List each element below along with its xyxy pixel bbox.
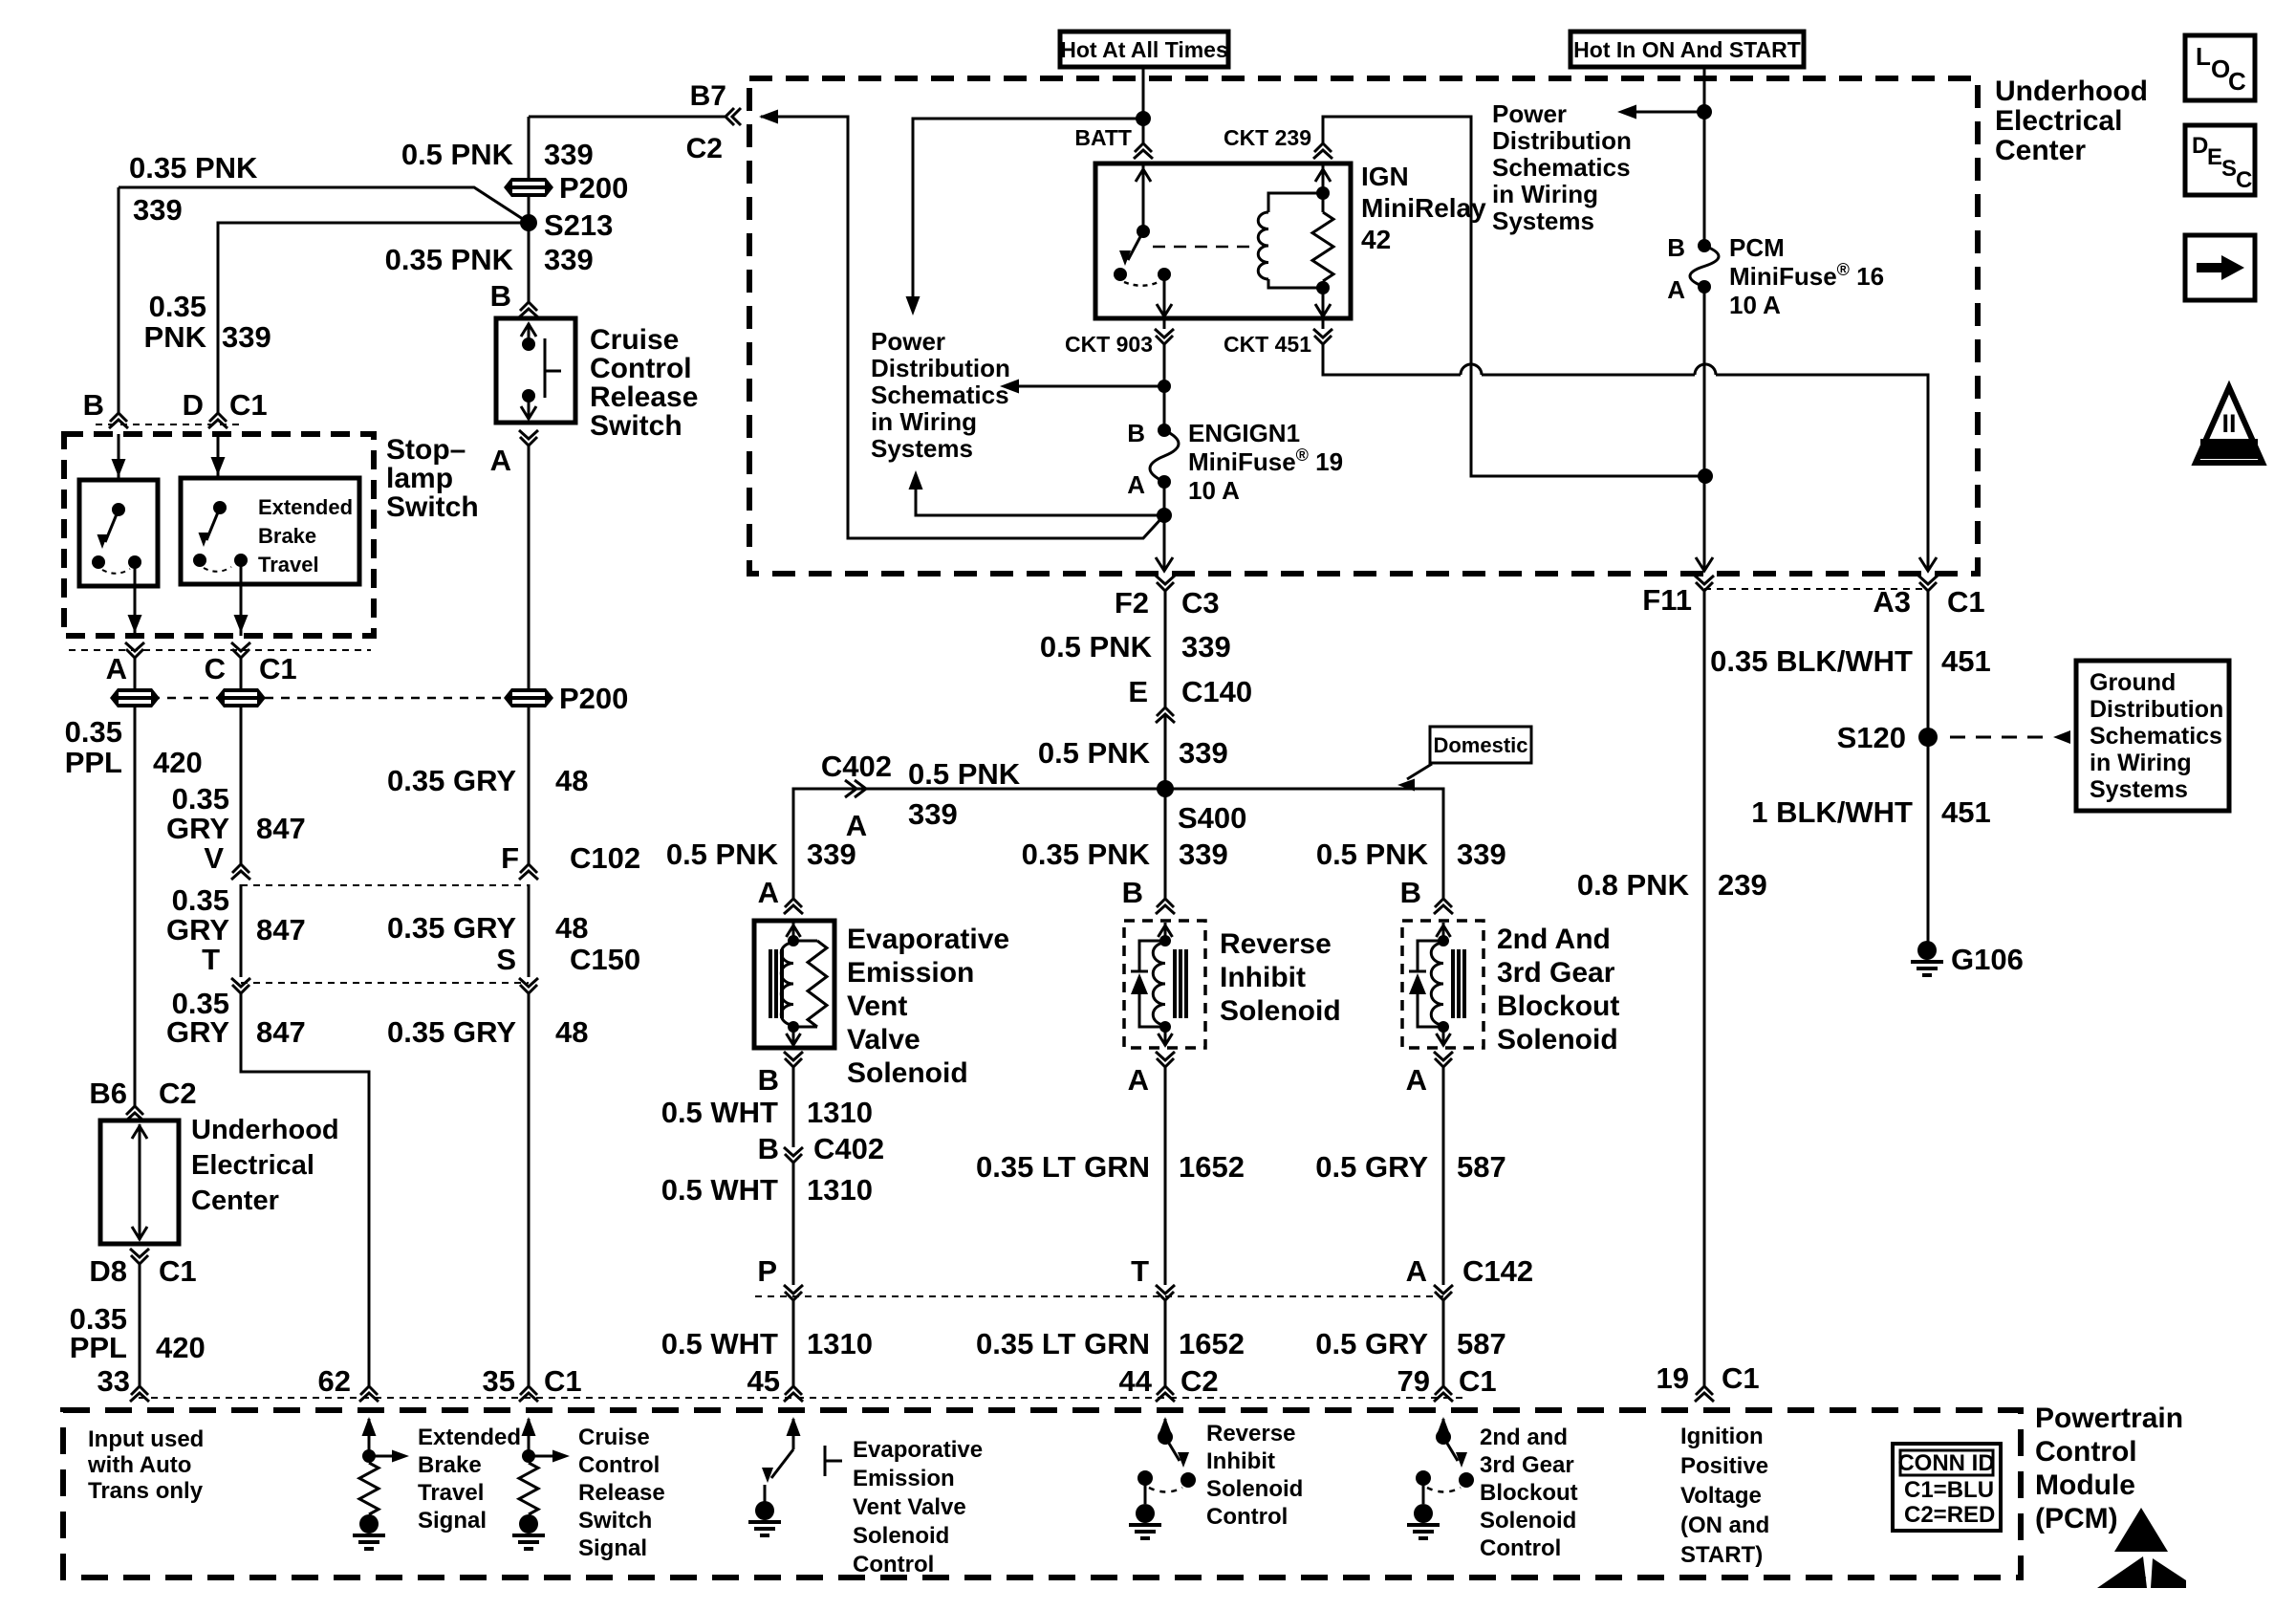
svg-text:Module: Module: [2035, 1469, 2135, 1501]
svg-text:G106: G106: [1951, 943, 2024, 976]
connector F C102: [520, 864, 537, 873]
svg-text:L: L: [2196, 42, 2211, 71]
relay IGN MiniRelay 42 box: [1095, 163, 1351, 318]
grommet P200 top: [504, 178, 553, 197]
connector E/C140: [1157, 707, 1174, 716]
svg-text:B6: B6: [89, 1077, 127, 1110]
relay switch contact: [1114, 268, 1127, 281]
wire F11 to pin19: [1703, 591, 1706, 1386]
node relay coil top: [1316, 186, 1330, 200]
svg-text:Switch: Switch: [590, 410, 682, 442]
arrow left to power distribution note: [1000, 380, 1019, 394]
svg-text:0.5 GRY: 0.5 GRY: [1315, 1327, 1428, 1360]
svg-text:(ON and: (ON and: [1680, 1512, 1769, 1538]
svg-text:C1: C1: [1722, 1361, 1760, 1395]
svg-text:1 BLK/WHT: 1 BLK/WHT: [1751, 795, 1913, 829]
svg-text:in Wiring: in Wiring: [1492, 180, 1598, 208]
svg-text:Control: Control: [590, 353, 692, 384]
svg-text:CKT 903: CKT 903: [1065, 332, 1153, 357]
pcm cruise input arrow: [528, 1419, 531, 1456]
node reverse top: [1159, 935, 1171, 946]
svg-text:C150: C150: [570, 943, 640, 976]
conn id table: [1893, 1444, 2001, 1531]
connector B6: [126, 1106, 143, 1115]
svg-text:1310: 1310: [807, 1096, 873, 1129]
svg-text:START): START): [1680, 1542, 1763, 1568]
wire C down: [240, 658, 243, 864]
connector B/C402: [785, 1154, 802, 1163]
switch1 arc: [102, 569, 130, 574]
underhood electrical center dashed box: [749, 78, 1978, 574]
svg-text:0.35: 0.35: [65, 715, 122, 749]
node fuse output junction: [1157, 508, 1172, 523]
connector blockout B: [1435, 899, 1452, 907]
svg-text:Vent: Vent: [847, 990, 907, 1022]
svg-text:35: 35: [483, 1364, 515, 1398]
svg-text:C2: C2: [686, 133, 723, 164]
svg-text:Brake: Brake: [258, 524, 316, 548]
svg-text:847: 847: [256, 913, 306, 946]
connector row F11-A3 dashed: [1704, 588, 1928, 590]
svg-text:IGN: IGN: [1361, 162, 1409, 191]
relay switch arm: [1128, 231, 1143, 260]
svg-text:339: 339: [222, 320, 271, 354]
relay actuate dashed link: [1153, 246, 1258, 249]
svg-text:C1: C1: [159, 1254, 197, 1288]
wire to power distribution up arrow: [916, 488, 1164, 515]
svg-text:CKT 239: CKT 239: [1224, 125, 1311, 150]
wire fuse A junction: [1163, 482, 1166, 515]
wire cruise A down: [528, 446, 531, 864]
connector row C142 dashed: [755, 1295, 1443, 1297]
svg-text:Input used: Input used: [88, 1426, 204, 1452]
wire F2 to C140: [1164, 591, 1167, 707]
svg-text:P: P: [757, 1254, 777, 1288]
grommet dashed row: [135, 697, 529, 700]
wire A3 to S120: [1927, 591, 1930, 950]
svg-text:Valve: Valve: [847, 1024, 921, 1055]
switch2 arc: [204, 567, 231, 572]
connector CKT 451: [1322, 318, 1325, 329]
svg-text:339: 339: [1181, 630, 1231, 664]
svg-text:F: F: [501, 841, 519, 875]
relay coil: [1267, 193, 1270, 212]
arrow left to power distribution note 2: [1617, 105, 1636, 120]
domestic callout box: [1430, 727, 1531, 763]
pcm reverse pivot: [1158, 1429, 1173, 1445]
svg-text:with Auto: with Auto: [87, 1452, 191, 1478]
svg-text:0.35 GRY: 0.35 GRY: [387, 911, 516, 945]
svg-text:42: 42: [1361, 225, 1391, 254]
svg-text:B: B: [1122, 876, 1143, 909]
svg-text:C2=RED: C2=RED: [1904, 1502, 1995, 1528]
brake switch 1 box: [79, 480, 158, 586]
svg-text:Solenoid: Solenoid: [1206, 1476, 1303, 1502]
svg-text:CKT 451: CKT 451: [1224, 332, 1311, 357]
wire S400 down: [1164, 789, 1167, 899]
wire to power distribution arrow left 2: [1636, 111, 1704, 114]
desc box: [2185, 125, 2255, 195]
svg-text:Center: Center: [1995, 135, 2086, 166]
wire evap B down: [792, 1067, 795, 1147]
svg-text:Voltage: Voltage: [1680, 1483, 1762, 1509]
svg-text:V: V: [204, 841, 224, 875]
svg-text:1310: 1310: [807, 1173, 873, 1207]
svg-text:PPL: PPL: [65, 746, 122, 779]
node ignition junction: [1697, 104, 1712, 120]
svg-text:Switch: Switch: [386, 491, 479, 523]
svg-text:0.35: 0.35: [172, 883, 229, 917]
loc box: [2185, 35, 2255, 100]
svg-text:1652: 1652: [1179, 1150, 1245, 1184]
connector C402 inline: [845, 780, 856, 797]
hop over ignition wire: [1695, 364, 1716, 375]
svg-text:Solenoid: Solenoid: [847, 1057, 968, 1089]
svg-text:0.5 PNK: 0.5 PNK: [1038, 736, 1151, 770]
svg-text:E: E: [1128, 675, 1148, 708]
svg-text:Ignition: Ignition: [1680, 1424, 1764, 1449]
connector cruise B: [520, 302, 537, 311]
svg-text:D: D: [183, 388, 204, 422]
cruise switch bottom wire: [528, 396, 531, 419]
svg-text:Solenoid: Solenoid: [1497, 1024, 1618, 1055]
pcm blockout contact: [1459, 1472, 1474, 1488]
svg-text:PNK: PNK: [144, 320, 207, 354]
wire to power distribution arrow left: [1019, 385, 1164, 388]
svg-text:II: II: [2221, 409, 2236, 438]
evap top wire: [792, 923, 795, 941]
svg-text:847: 847: [256, 1015, 306, 1049]
svg-text:0.5 WHT: 0.5 WHT: [661, 1096, 778, 1129]
node evap bottom: [788, 1021, 799, 1033]
connector S C150: [520, 985, 537, 993]
svg-text:B: B: [758, 1063, 779, 1097]
pcm ext brake resistor: [359, 1463, 379, 1514]
svg-text:F2: F2: [1115, 586, 1149, 620]
svg-text:PCM: PCM: [1729, 233, 1785, 262]
svg-text:3rd Gear: 3rd Gear: [1497, 957, 1615, 989]
pcm blockout pivot: [1436, 1429, 1451, 1445]
svg-text:48: 48: [555, 1015, 588, 1049]
switch2 contact: [193, 554, 206, 567]
svg-text:0.35: 0.35: [149, 290, 206, 323]
svg-text:Power: Power: [871, 327, 945, 356]
solenoid evap box: [754, 921, 834, 1048]
svg-text:B: B: [758, 1132, 779, 1165]
svg-text:F11: F11: [1642, 583, 1692, 617]
pcm ext brake node: [362, 1449, 376, 1463]
svg-text:Evaporative: Evaporative: [853, 1437, 983, 1463]
evap coil: [781, 943, 793, 1025]
svg-text:Schematics: Schematics: [2090, 723, 2222, 750]
svg-text:A: A: [490, 444, 511, 477]
connector stoplamp B: [110, 413, 127, 422]
switch2 output: [240, 560, 243, 636]
connector stoplamp C: [232, 649, 249, 658]
switch2 output contact: [234, 554, 248, 567]
connector row A-C dashed: [69, 649, 371, 651]
arrow box: [2185, 235, 2255, 300]
switch1 output contact: [128, 555, 141, 569]
pcm cruise node: [522, 1449, 535, 1463]
svg-text:2nd and: 2nd and: [1480, 1425, 1568, 1450]
wire S400 branch right to blockout: [1165, 789, 1443, 899]
connector evap B bottom: [785, 1058, 802, 1067]
brake switch 2 box: [181, 478, 359, 584]
svg-text:C1: C1: [1459, 1364, 1497, 1398]
svg-text:GRY: GRY: [166, 812, 229, 845]
svg-text:Solenoid: Solenoid: [1480, 1508, 1576, 1534]
ground G106: [1917, 941, 1937, 960]
wire fuse output down to F2: [1163, 515, 1166, 571]
svg-text:0.35 GRY: 0.35 GRY: [387, 1015, 516, 1049]
svg-text:GRY: GRY: [166, 913, 229, 946]
grommet left: [110, 688, 160, 707]
svg-text:Powertrain: Powertrain: [2035, 1403, 2183, 1434]
connector reverse A bottom: [1157, 1058, 1174, 1067]
arrow down to power distribution note: [906, 296, 921, 315]
node evap top: [788, 935, 799, 946]
svg-text:Emission: Emission: [853, 1466, 955, 1491]
svg-text:Control: Control: [578, 1452, 660, 1478]
connector evap A: [785, 899, 802, 907]
svg-text:S: S: [2221, 156, 2237, 182]
svg-text:10 A: 10 A: [1729, 291, 1781, 319]
relay switch pivot: [1137, 225, 1150, 238]
connector row C102 dashed: [241, 884, 529, 886]
fuse PCM MiniFuse 16: [1698, 239, 1711, 252]
svg-text:Positive: Positive: [1680, 1453, 1768, 1479]
wire BATT junction to power distribution arrow: [913, 119, 1143, 296]
node blockout bottom: [1438, 1021, 1449, 1033]
blockout bottom wire: [1442, 1027, 1445, 1046]
switch1 entry: [118, 434, 120, 480]
S120 dashed pointer: [1950, 736, 2051, 739]
blockout top wire: [1442, 923, 1445, 941]
svg-text:P200: P200: [559, 682, 628, 715]
hot in on and start box: [1570, 32, 1804, 67]
pcm cruise pointer: [529, 1455, 552, 1458]
pcm evap ground wire: [764, 1485, 767, 1505]
connector stoplamp A: [126, 649, 143, 658]
relay resistor: [1312, 212, 1333, 281]
svg-text:in Wiring: in Wiring: [2090, 750, 2192, 776]
svg-text:Trans only: Trans only: [88, 1478, 204, 1504]
svg-text:Control: Control: [853, 1552, 934, 1577]
wire S down to pin35: [528, 993, 531, 1386]
wire pcm fuse to F11: [1703, 287, 1706, 571]
svg-text:Schematics: Schematics: [871, 381, 1009, 409]
svg-text:C142: C142: [1462, 1254, 1533, 1288]
svg-text:Center: Center: [191, 1186, 279, 1216]
reverse coil: [1153, 943, 1165, 1025]
svg-text:Signal: Signal: [578, 1535, 647, 1561]
wire A down left column: [134, 658, 137, 1106]
svg-text:Underhood: Underhood: [1995, 76, 2148, 107]
svg-text:Blockout: Blockout: [1497, 990, 1619, 1022]
svg-text:Reverse: Reverse: [1220, 928, 1332, 960]
svg-text:Extended: Extended: [418, 1425, 521, 1450]
connector A C142: [1435, 1292, 1452, 1300]
relay switch input wire: [1142, 163, 1145, 231]
connector BATT: [1135, 143, 1152, 152]
wire CKT903 down to fuse: [1163, 344, 1166, 430]
wire V to T: [240, 884, 243, 977]
svg-text:C: C: [205, 652, 226, 685]
svg-text:Blockout: Blockout: [1480, 1480, 1578, 1506]
svg-text:PPL: PPL: [70, 1331, 127, 1364]
wire P to pin45: [792, 1300, 795, 1386]
svg-text:B: B: [490, 279, 511, 313]
connector A3/C1: [1919, 582, 1937, 591]
svg-text:Underhood: Underhood: [191, 1115, 339, 1145]
svg-text:T: T: [1131, 1254, 1149, 1288]
svg-text:Systems: Systems: [1492, 207, 1594, 235]
switch1 pivot: [112, 503, 125, 516]
pcm reverse input arrow: [1164, 1419, 1167, 1437]
solenoid reverse box dashed: [1124, 921, 1205, 1048]
arrow A3 exit: [1919, 557, 1937, 571]
svg-text:C1: C1: [259, 652, 297, 685]
svg-text:3rd Gear: 3rd Gear: [1480, 1452, 1574, 1478]
wire C140 to S400: [1164, 715, 1167, 789]
connector pin 35: [520, 1386, 537, 1395]
node cruise top: [522, 337, 535, 351]
wire T to pin44: [1164, 1300, 1167, 1386]
svg-text:S120: S120: [1837, 721, 1906, 754]
connector T C150: [232, 985, 249, 993]
svg-text:Ground: Ground: [2090, 669, 2176, 696]
svg-text:0.35 LT GRN: 0.35 LT GRN: [976, 1327, 1150, 1360]
fuse ENGIGN1 MiniFuse 19: [1158, 424, 1171, 437]
svg-text:339: 339: [544, 243, 594, 276]
svg-text:2nd And: 2nd And: [1497, 924, 1611, 955]
wire C402 to P: [792, 1163, 795, 1285]
svg-text:Systems: Systems: [871, 434, 973, 463]
uec internal wire: [139, 1124, 141, 1240]
svg-text:Inhibit: Inhibit: [1206, 1448, 1275, 1474]
svg-text:Distribution: Distribution: [2090, 696, 2223, 723]
connector B7/C2: [732, 108, 741, 125]
svg-text:A: A: [1127, 470, 1145, 499]
grommet right P200: [504, 688, 553, 707]
pcm reverse arc: [1149, 1488, 1182, 1492]
svg-text:587: 587: [1457, 1150, 1506, 1184]
svg-text:339: 339: [1179, 736, 1228, 770]
svg-text:Distribution: Distribution: [1492, 126, 1632, 155]
svg-text:Cruise: Cruise: [578, 1425, 650, 1450]
svg-text:0.5 PNK: 0.5 PNK: [1316, 838, 1429, 871]
wire 0.35 PNK to B: [119, 187, 529, 413]
svg-text:Release: Release: [578, 1480, 665, 1506]
switch2 pivot: [213, 501, 227, 514]
svg-text:587: 587: [1457, 1327, 1506, 1360]
wire fuse output to B7: [761, 117, 1164, 538]
svg-text:C3: C3: [1181, 586, 1220, 620]
svg-text:0.5 PNK: 0.5 PNK: [666, 838, 779, 871]
svg-text:Solenoid: Solenoid: [853, 1523, 949, 1549]
reverse core: [1173, 949, 1177, 1018]
pcm blockout arc: [1427, 1488, 1461, 1492]
svg-text:0.5 WHT: 0.5 WHT: [661, 1327, 778, 1360]
svg-text:Signal: Signal: [418, 1508, 487, 1534]
svg-text:Reverse: Reverse: [1206, 1421, 1295, 1447]
svg-text:Travel: Travel: [418, 1480, 484, 1506]
svg-text:339: 339: [133, 193, 183, 227]
svg-text:S: S: [496, 943, 516, 976]
connector F11: [1696, 582, 1713, 591]
switch1 output: [134, 562, 137, 636]
wire CKT451 to A3: [1323, 344, 1928, 571]
svg-text:62: 62: [318, 1364, 351, 1398]
pcm blockout input arrow: [1442, 1419, 1445, 1437]
svg-text:C: C: [2228, 67, 2246, 96]
blockout core: [1451, 949, 1455, 1018]
cruise switch plunger: [544, 338, 547, 398]
svg-text:0.5 GRY: 0.5 GRY: [1315, 1150, 1428, 1184]
connector pin 79: [1435, 1386, 1452, 1395]
svg-text:451: 451: [1941, 795, 1991, 829]
splice S213: [520, 214, 537, 231]
svg-text:Electrical: Electrical: [1995, 105, 2122, 137]
svg-text:Release: Release: [590, 381, 698, 413]
svg-text:Control: Control: [2035, 1436, 2137, 1468]
svg-text:Control: Control: [1480, 1535, 1561, 1561]
evap bottom wire: [792, 1027, 795, 1046]
svg-text:Vent Valve: Vent Valve: [853, 1494, 966, 1520]
wire reverse A down: [1164, 1067, 1167, 1285]
reverse bottom wire: [1164, 1027, 1167, 1046]
svg-text:Switch: Switch: [578, 1508, 652, 1534]
blockout diode branch: [1418, 941, 1443, 1027]
svg-text:0.35 PNK: 0.35 PNK: [1022, 838, 1151, 871]
svg-text:C1: C1: [544, 1364, 582, 1398]
svg-text:1652: 1652: [1179, 1327, 1245, 1360]
svg-text:Stop–: Stop–: [386, 434, 466, 466]
svg-text:0.5 PNK: 0.5 PNK: [1040, 630, 1153, 664]
pcm blockout ground: [1414, 1504, 1433, 1523]
svg-text:A3: A3: [1873, 585, 1911, 619]
svg-text:P200: P200: [559, 171, 628, 205]
svg-text:Schematics: Schematics: [1492, 153, 1631, 182]
relay coil top wire: [1268, 163, 1323, 197]
node blockout top: [1438, 935, 1449, 946]
wire D8 to pin33: [139, 1264, 141, 1386]
pcm cruise ground: [519, 1514, 538, 1534]
svg-text:B: B: [1127, 419, 1145, 447]
svg-text:C402: C402: [821, 750, 892, 783]
svg-text:19: 19: [1657, 1361, 1689, 1395]
ground distribution box: [2076, 661, 2229, 811]
svg-text:0.35 GRY: 0.35 GRY: [387, 764, 516, 797]
connector T: [1157, 1292, 1174, 1300]
connector pin 44: [1157, 1386, 1174, 1395]
svg-text:C402: C402: [813, 1132, 884, 1165]
svg-text:C1: C1: [1947, 585, 1985, 619]
esd sensitive symbol: [2114, 1508, 2168, 1552]
svg-text:Inhibit: Inhibit: [1220, 962, 1306, 993]
svg-text:A: A: [1128, 1063, 1149, 1097]
svg-text:Systems: Systems: [2090, 776, 2188, 803]
svg-text:48: 48: [555, 911, 588, 945]
svg-text:48: 48: [555, 764, 588, 797]
svg-text:D: D: [2192, 133, 2208, 159]
svg-text:339: 339: [544, 138, 594, 171]
svg-text:0.35 LT GRN: 0.35 LT GRN: [976, 1150, 1150, 1184]
svg-text:D8: D8: [89, 1254, 127, 1288]
svg-text:Domestic: Domestic: [1433, 733, 1527, 757]
svg-text:Travel: Travel: [258, 553, 319, 577]
